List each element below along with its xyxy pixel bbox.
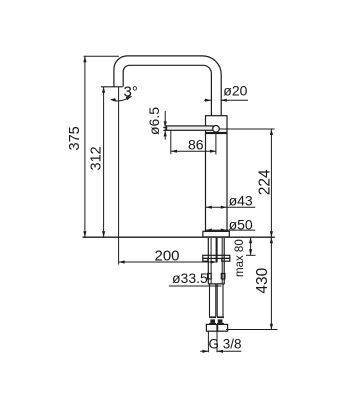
svg-text:375: 375 [67, 126, 83, 150]
dim max80 ext bottom [246, 254, 256, 256]
dim o43 line [206, 206, 256, 208]
arrow 200 right [211, 260, 217, 263]
3 deg arc [111, 96, 132, 101]
dim max80 line [250, 237, 252, 255]
dim o20 line [204, 99, 248, 101]
svg-text:312: 312 [89, 146, 105, 170]
shank bottom line [208, 283, 224, 285]
arrow arc right [126, 96, 132, 100]
spout outlet end face [101, 86, 123, 88]
arrow 86 left [171, 150, 177, 153]
dim o50 line [206, 229, 256, 231]
dim 200 line [119, 261, 217, 263]
o33.5 leader [169, 285, 222, 287]
arrow arc left [111, 98, 117, 102]
dim 224 / 430 line [270, 129, 272, 330]
left connector nut [206, 324, 217, 331]
arrow G38 right [217, 350, 223, 353]
arrow 224 up [270, 129, 273, 135]
svg-text:430: 430 [254, 267, 271, 293]
mounting nut bar [203, 255, 230, 258]
svg-text:ø43: ø43 [229, 193, 253, 209]
dim 224 ext top [219, 128, 274, 130]
arrow 312 up [102, 87, 105, 93]
left ferrule [209, 316, 216, 324]
nut tab left [203, 258, 208, 261]
right ferrule [217, 316, 224, 324]
dim 375 line [84, 56, 86, 237]
nut tab right [222, 258, 230, 261]
G3/8 ext lines [208, 331, 217, 352]
lower tab left [208, 274, 212, 279]
dim 86 ext right [215, 133, 217, 155]
arrow o6.5 down [164, 121, 167, 127]
right hose [217, 285, 223, 317]
svg-text:ø20: ø20 [223, 83, 247, 99]
arrow o20 right [221, 99, 227, 102]
body ø43 [206, 116, 228, 232]
spout tube outer contour [114, 56, 221, 116]
svg-text:max 80: max 80 [234, 239, 246, 277]
arrow o50 right [221, 229, 227, 232]
arrow 200 left [119, 260, 125, 263]
deck line [83, 236, 275, 238]
pivot hole circle [213, 126, 220, 133]
arrow o6.5 up [164, 130, 167, 136]
arrow 86 right [210, 150, 216, 153]
dim 375 extension top [84, 55, 120, 57]
arrow o50 left [206, 229, 212, 232]
svg-text:224: 224 [256, 169, 273, 195]
arrow 312 down [102, 231, 105, 237]
left hose [210, 285, 216, 317]
arrow o20 left [205, 99, 211, 102]
dim 430 ext bottom [226, 329, 278, 331]
handle bar ø6.5 [167, 126, 214, 130]
svg-text:86: 86 [188, 137, 204, 153]
base flange ø50 [203, 231, 229, 237]
arrow 375 down [83, 231, 86, 237]
arrow G38 left [202, 350, 208, 353]
dim 312 line [103, 87, 105, 237]
arrow 430 down [270, 324, 273, 330]
right connector nut [218, 324, 228, 331]
spout tube inner contour [123, 65, 211, 115]
arrow max80 down [249, 249, 252, 255]
arrow o43 left [206, 206, 212, 209]
dim 86 line [171, 150, 216, 152]
svg-text:G 3/8: G 3/8 [209, 337, 242, 352]
svg-text:200: 200 [155, 248, 180, 265]
dim o6.5 line [163, 111, 167, 140]
svg-text:ø50: ø50 [229, 217, 253, 233]
lower tab right [221, 274, 225, 279]
arrow 375 up [83, 56, 86, 62]
arrow max80 up [249, 237, 252, 243]
svg-text:3°: 3° [124, 84, 138, 101]
shank inner supply lines [211, 238, 222, 284]
outlet axis line [118, 87, 120, 265]
svg-text:ø33.5: ø33.5 [172, 270, 208, 286]
dim 86 ext left [170, 131, 172, 155]
G3/8 dim line [200, 350, 241, 352]
shank center rod [216, 238, 218, 263]
svg-text:ø6.5: ø6.5 [146, 107, 162, 135]
arrow 224 down [270, 231, 273, 237]
arrowheads [83, 56, 273, 353]
arrow 430 up [270, 237, 273, 243]
arrow o43 right [221, 206, 227, 209]
dark joint band [206, 132, 228, 134]
shank outer tube [208, 238, 224, 284]
